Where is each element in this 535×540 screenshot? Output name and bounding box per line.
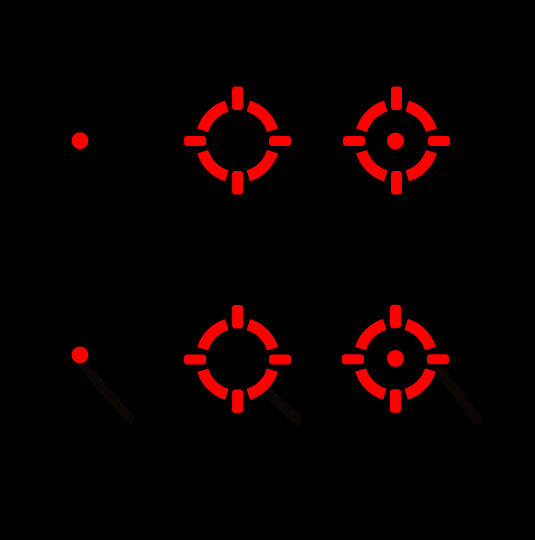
- red dot reticle (row 1): [72, 132, 89, 149]
- circle-dot reticle with ticks (row 2): [342, 305, 449, 413]
- red dot reticle (row 2): [72, 347, 89, 364]
- leader line from row-2 dot reticle: [84, 366, 130, 419]
- circle reticle with ticks (row 2): [184, 305, 291, 413]
- circle-dot reticle with ticks (row 1): [343, 87, 450, 195]
- circle reticle with ticks (row 1): [184, 87, 291, 195]
- leader line from row-2 circle reticle: [266, 390, 297, 420]
- leader line from row-2 circle-dot reticle: [439, 369, 477, 419]
